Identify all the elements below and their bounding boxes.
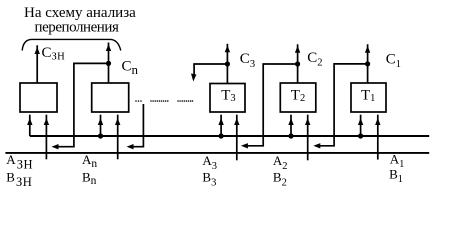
svg-text:переполнения: переполнения <box>35 20 119 36</box>
wire: carry from elided stage to box n input <box>127 104 144 149</box>
input arrow: T1 right <box>375 115 380 160</box>
register box Зн (sign digit) <box>20 83 57 112</box>
svg-text:ВЗН: ВЗН <box>6 170 32 189</box>
ellipsis dots group 2 <box>150 100 168 102</box>
input arrow: T1 left <box>358 115 363 136</box>
node: dot T1 left input on L1 <box>358 133 363 138</box>
svg-text:Т1: Т1 <box>361 88 375 104</box>
svg-text:C3: C3 <box>240 51 255 70</box>
svg-text:Т3: Т3 <box>221 88 235 104</box>
ellipsis dots group 1 <box>135 100 142 102</box>
carry output arrow C3 <box>225 44 230 84</box>
svg-text:B2: B2 <box>273 169 287 188</box>
trigger box T3 <box>210 84 245 113</box>
svg-text:СЗН: СЗН <box>42 45 66 63</box>
node: junction dot on C1 <box>365 61 370 66</box>
wire: carry from C2 to T3 input <box>241 64 298 149</box>
input arrow: box n left <box>98 115 103 136</box>
carry output arrow Cзн <box>35 45 40 83</box>
wire: carry from Cn to sign box input <box>52 63 109 149</box>
input arrow: sign box left <box>27 115 32 136</box>
wire: carry from C1 to T2 input <box>313 64 367 149</box>
input arrow: box n right <box>115 115 120 160</box>
input arrow: T2 right <box>305 115 310 161</box>
node: junction dot on Cn <box>106 61 111 66</box>
svg-text:Cn: Cn <box>122 58 139 77</box>
wire: carry from C3 going down to elided stages <box>191 64 227 82</box>
overbrace under caption <box>22 39 121 50</box>
trigger box T1 <box>351 83 386 112</box>
svg-text:C1: C1 <box>386 52 401 70</box>
carry output arrow C1 <box>365 44 370 83</box>
svg-text:C2: C2 <box>307 50 322 68</box>
node: dot T2 left input on L1 <box>288 133 293 138</box>
input arrow: T3 right <box>234 115 239 161</box>
register box n <box>92 83 129 112</box>
svg-text:Bn: Bn <box>82 170 97 188</box>
node: junction dot on C2 <box>295 61 300 66</box>
bus line L2 (lower horizontal line) <box>5 152 429 154</box>
carry output arrow C2 <box>295 44 300 83</box>
ellipsis dots group 3 <box>177 100 193 102</box>
svg-text:Т2: Т2 <box>291 88 305 104</box>
input arrow: T3 left <box>218 115 223 136</box>
trigger box T2 <box>280 83 316 112</box>
svg-text:На схему анализа: На схему анализа <box>24 5 136 21</box>
bus line L1 (upper horizontal line) <box>30 135 429 137</box>
input arrow: T2 left <box>288 115 293 136</box>
node: dot box n left input on L1 <box>98 133 103 138</box>
svg-text:An: An <box>82 152 97 170</box>
node: junction dot on C3 <box>225 61 230 66</box>
carry output arrow Cn <box>106 43 111 84</box>
svg-text:B3: B3 <box>202 169 216 188</box>
input arrow: sign box right <box>44 115 49 160</box>
node: dot T3 left input on L1 <box>219 133 224 138</box>
